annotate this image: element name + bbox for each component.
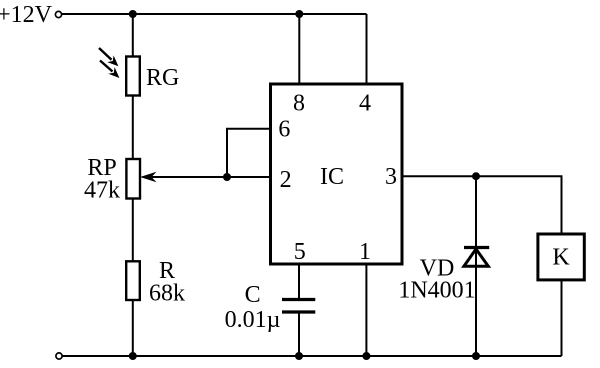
svg-text:3: 3 xyxy=(385,164,397,190)
svg-text:IC: IC xyxy=(320,164,344,190)
terminal bottom-left xyxy=(56,353,62,359)
wire top rail to RG xyxy=(132,14,134,57)
wire bottom rail xyxy=(63,355,562,357)
op-amp U1 IC box xyxy=(271,84,403,264)
wire K to bottom rail xyxy=(561,280,563,356)
pin 2 arrowhead at RP xyxy=(140,172,157,182)
wire RG to RP xyxy=(132,96,134,160)
capacitor C plates xyxy=(282,300,315,313)
potentiometer RP xyxy=(126,159,140,199)
svg-text:1: 1 xyxy=(359,239,371,265)
terminal +12V xyxy=(55,11,61,17)
svg-text:+12V: +12V xyxy=(0,2,53,28)
junction capacitor bottom xyxy=(295,352,303,360)
junction pin1 bottom xyxy=(362,352,370,360)
wire RP to R xyxy=(132,199,134,262)
svg-text:47k: 47k xyxy=(84,178,120,204)
svg-text:0.01µ: 0.01µ xyxy=(225,307,281,333)
junction top-left xyxy=(129,10,137,18)
pin 8 wire xyxy=(298,14,300,84)
pin 4 wire xyxy=(366,14,368,84)
wire diode branch xyxy=(475,176,477,356)
svg-text:2: 2 xyxy=(280,167,292,193)
junction diode bottom xyxy=(472,352,480,360)
diode VD cathode bar xyxy=(464,246,489,249)
pin 5 wire xyxy=(298,264,300,298)
svg-text:4: 4 xyxy=(359,91,371,117)
svg-text:K: K xyxy=(552,245,570,271)
pin 3 wire xyxy=(402,176,562,232)
resistor R xyxy=(126,261,140,300)
junction top pin8 xyxy=(295,10,303,18)
junction pin2/pin6 xyxy=(223,173,231,181)
svg-text:C: C xyxy=(245,282,261,308)
junction bottom-left xyxy=(129,352,137,360)
svg-text:8: 8 xyxy=(293,91,305,117)
svg-text:6: 6 xyxy=(278,117,290,143)
wire capacitor to bottom rail xyxy=(298,312,300,356)
svg-text:5: 5 xyxy=(294,239,306,265)
RG light arrow 1 xyxy=(99,48,118,66)
RG light arrow 2 xyxy=(100,61,119,79)
wire top rail xyxy=(62,13,367,15)
pin 2 wire xyxy=(150,176,271,178)
pin 1 wire xyxy=(365,264,367,356)
relay K box xyxy=(538,234,584,280)
svg-text:1N4001: 1N4001 xyxy=(398,277,475,303)
wire R to bottom rail xyxy=(132,300,134,356)
junction pin3/diode xyxy=(472,172,480,180)
svg-text:RG: RG xyxy=(146,65,179,91)
diode VD triangle xyxy=(464,249,488,266)
svg-text:68k: 68k xyxy=(149,281,185,307)
pin 6 wire xyxy=(227,129,271,177)
photoresistor RG xyxy=(126,57,140,96)
